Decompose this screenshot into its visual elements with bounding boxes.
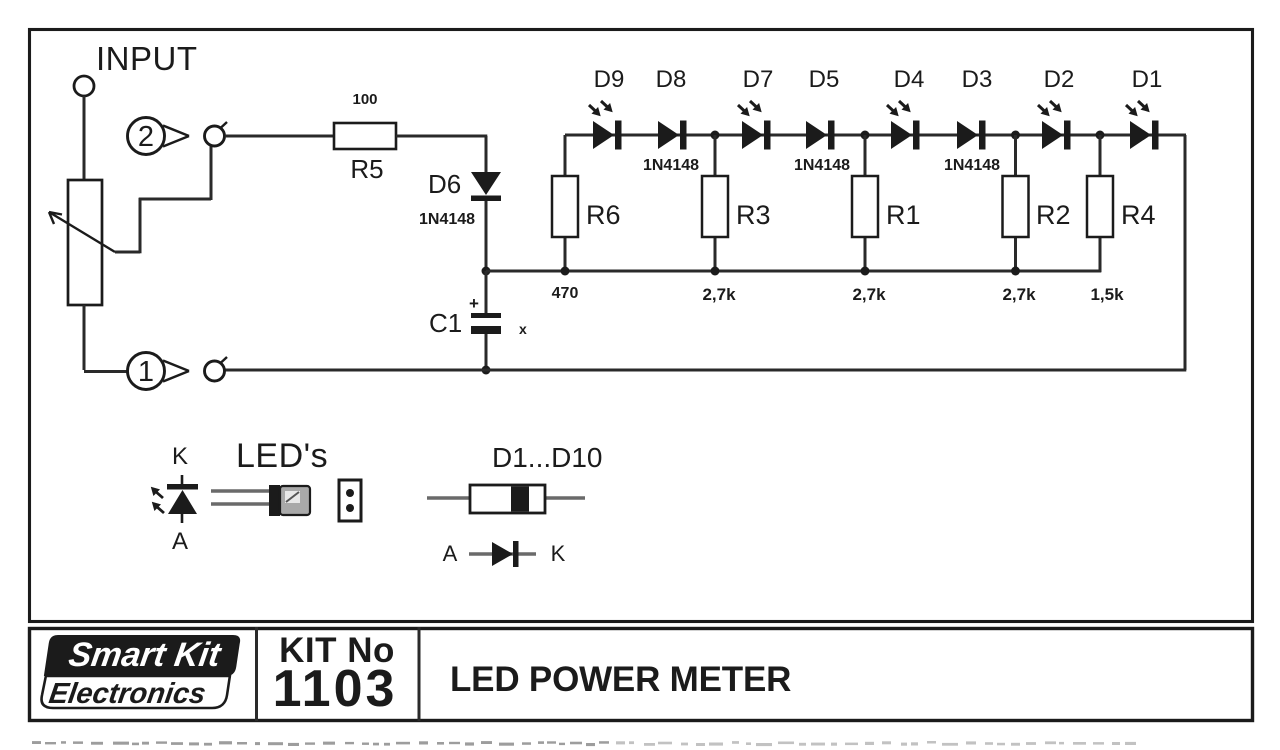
svg-text:2,7k: 2,7k <box>702 285 736 304</box>
svg-text:R3: R3 <box>736 200 771 230</box>
svg-text:2: 2 <box>138 121 154 153</box>
resistor R1 <box>852 176 878 237</box>
svg-text:D6: D6 <box>428 169 461 199</box>
svg-text:D2: D2 <box>1044 66 1075 93</box>
wire R5 to D6 <box>396 135 487 138</box>
svg-text:D3: D3 <box>962 66 993 93</box>
LED D9 <box>593 121 614 149</box>
svg-text:1N4148: 1N4148 <box>643 157 699 174</box>
svg-text:D4: D4 <box>894 66 925 93</box>
wire potentiometer bottom to terminal 1 <box>83 305 86 370</box>
terminal bubble 1 <box>128 353 165 390</box>
wire C1 to bottom rail <box>485 334 488 370</box>
legend diode symbol <box>469 552 536 556</box>
wire node to C1 <box>485 271 488 313</box>
svg-text:2,7k: 2,7k <box>852 285 886 304</box>
LED D7 <box>742 121 763 149</box>
diode D6 <box>471 172 501 195</box>
top chain rail wire <box>565 134 1186 137</box>
svg-text:1N4148: 1N4148 <box>419 211 475 228</box>
legend diode package <box>470 485 545 513</box>
svg-text:Electronics: Electronics <box>47 678 208 710</box>
svg-text:LED's: LED's <box>236 437 328 475</box>
svg-text:R6: R6 <box>586 200 621 230</box>
wire R2 bottom <box>1014 237 1017 271</box>
svg-text:K: K <box>551 541 566 566</box>
Smart Kit Electronics logo <box>39 635 241 710</box>
node D8-R3 <box>711 131 720 140</box>
svg-text:D1: D1 <box>1132 66 1163 93</box>
svg-text:100: 100 <box>352 91 377 108</box>
terminal 1 connector circle <box>205 361 225 381</box>
resistor R5 <box>334 123 396 149</box>
svg-text:D8: D8 <box>656 66 687 93</box>
svg-text:1103: 1103 <box>273 660 398 718</box>
LED D4 <box>891 121 912 149</box>
scan artifact dashes at bottom <box>32 741 41 744</box>
wire R4 top <box>1099 135 1102 176</box>
LED D2 <box>1042 121 1063 149</box>
node C1 bottom <box>482 366 491 375</box>
wire R1 top <box>864 135 867 176</box>
node at D6 / C1 <box>482 267 491 276</box>
terminal bubble 2 <box>128 118 165 155</box>
node D5-R1 <box>861 131 870 140</box>
resistor R3 <box>702 176 728 237</box>
wire R2 top <box>1014 135 1017 176</box>
svg-text:R1: R1 <box>886 200 921 230</box>
svg-text:R4: R4 <box>1121 200 1156 230</box>
wire R4 bottom <box>1099 237 1102 272</box>
bottom rail wire <box>225 369 1186 372</box>
terminal 2 connector circle <box>205 126 225 146</box>
potentiometer wiper arrow <box>49 212 115 252</box>
svg-text:K: K <box>172 443 188 470</box>
wire chain left drop to R6 <box>564 135 567 176</box>
svg-text:R2: R2 <box>1036 200 1071 230</box>
node R3 bottom <box>711 267 720 276</box>
legend LED leads <box>211 489 273 493</box>
node R2 bottom <box>1011 267 1020 276</box>
wire R6 bottom <box>564 237 567 271</box>
diode D5 <box>806 121 827 149</box>
svg-text:LED POWER METER: LED POWER METER <box>450 660 791 699</box>
wire wiper to terminal 2 <box>115 251 140 254</box>
wire R3 top <box>714 135 717 176</box>
input terminal circle <box>74 76 94 96</box>
resistor R4 <box>1087 176 1113 237</box>
wire R3 bottom <box>714 237 717 271</box>
svg-text:1: 1 <box>138 356 154 388</box>
svg-text:1N4148: 1N4148 <box>944 157 1000 174</box>
diode D8 <box>658 121 679 149</box>
title bar divider 2 <box>418 627 421 721</box>
svg-text:1,5k: 1,5k <box>1090 285 1124 304</box>
node D3-R2 <box>1011 131 1020 140</box>
svg-text:A: A <box>172 528 188 555</box>
svg-text:Smart Kit: Smart Kit <box>66 636 224 674</box>
svg-text:2,7k: 2,7k <box>1002 285 1036 304</box>
node D2-R4 <box>1096 131 1105 140</box>
potentiometer P1 body <box>68 180 102 305</box>
title bar divider 1 <box>255 627 258 721</box>
legend LED footprint pads <box>339 480 361 521</box>
legend LED symbol <box>181 475 184 485</box>
resistor R2 <box>1003 176 1029 237</box>
wire input to potentiometer <box>83 96 86 180</box>
svg-text:R5: R5 <box>350 154 383 184</box>
capacitor C1 <box>471 313 501 318</box>
svg-text:D5: D5 <box>809 66 840 93</box>
svg-text:470: 470 <box>552 285 579 302</box>
diode D3 <box>957 121 978 149</box>
resistor R6 <box>552 176 578 237</box>
wire D6 to node <box>485 201 488 271</box>
svg-text:+: + <box>469 294 479 313</box>
LED D1 <box>1130 121 1151 149</box>
svg-text:x: x <box>519 321 527 337</box>
svg-text:1N4148: 1N4148 <box>794 157 850 174</box>
svg-text:D9: D9 <box>594 66 625 93</box>
svg-text:D1...D10: D1...D10 <box>492 442 603 473</box>
node R1 bottom <box>861 267 870 276</box>
svg-text:D7: D7 <box>743 66 774 93</box>
legend LED package <box>269 485 280 516</box>
wire terminal 2 to R5 <box>225 135 334 138</box>
legend LED emission arrows <box>155 491 163 498</box>
svg-text:A: A <box>443 541 458 566</box>
schematic border frame <box>30 30 1253 622</box>
svg-text:INPUT: INPUT <box>96 40 198 77</box>
mid rail wire <box>486 270 1101 273</box>
wire right edge down <box>1184 135 1187 370</box>
title bar frame <box>30 629 1253 721</box>
node R6 bottom <box>561 267 570 276</box>
wire R1 bottom <box>864 237 867 271</box>
svg-text:C1: C1 <box>429 308 462 338</box>
legend diode lead <box>427 496 585 500</box>
